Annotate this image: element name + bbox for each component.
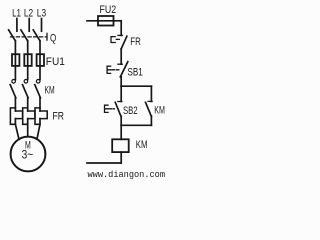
thermal relay FR element pole1 bracket (10, 108, 15, 124)
switch Q pole 1 blade (9, 30, 16, 41)
wire KM aux to bottom branch (150, 116, 152, 125)
wire branch top horizontal (121, 85, 151, 87)
pushbutton SB2 actuator dashes (109, 108, 114, 110)
pushbutton SB1 fixed foot (118, 63, 123, 65)
thermal relay FR element pole1 jog (15, 111, 22, 119)
FR NC contact actuator bracket (111, 37, 115, 43)
svg-text:SB1: SB1 (128, 67, 143, 79)
fuse FU1 pole2 body (24, 54, 31, 66)
thermal relay FR element pole3 jog (40, 111, 47, 119)
thermal relay FR element pole2 jog (28, 111, 35, 119)
motor M circle (11, 137, 46, 172)
wire pole1 switch to fuse (14, 41, 16, 80)
contactor KM main contact pole2 circle (24, 80, 28, 84)
wire SB1 to branch node (120, 77, 122, 86)
svg-text:FR: FR (130, 36, 141, 48)
wire pole2 switch to fuse (27, 41, 29, 80)
pushbutton SB2 fixed foot (118, 101, 122, 103)
contactor KM main contact pole1 circle (12, 80, 16, 84)
svg-text:KM: KM (136, 139, 148, 151)
wire FR contact to SB1 (120, 49, 122, 64)
fuse FU1 pole1 body (12, 54, 19, 66)
svg-text:FU1: FU1 (46, 56, 65, 68)
svg-text:KM: KM (45, 85, 55, 97)
fuse FU2 feed wire (87, 20, 121, 22)
wire left branch down to SB2 (120, 86, 122, 101)
wire bottom rail (87, 162, 121, 164)
wire pole2 FR to motor (27, 119, 29, 137)
switch Q linkage end tick (46, 33, 48, 40)
pushbutton SB1 blade (120, 62, 128, 77)
wire pole3 switch to fuse (39, 41, 41, 80)
switch Q pole 3 blade (33, 30, 40, 41)
pushbutton SB1 actuator dashes (112, 69, 119, 71)
wire pole2 contact to FR (27, 98, 29, 111)
contactor KM main contact pole2 blade (23, 85, 29, 98)
thermal relay FR element pole2 bracket (23, 108, 28, 124)
wire pole1 contact to FR (14, 98, 16, 111)
coil KM body (112, 139, 129, 152)
svg-text:FU2: FU2 (100, 4, 117, 16)
pushbutton SB2 blade (115, 102, 121, 116)
wire FU2 corner down to FR contact (120, 21, 122, 36)
wire pole3 FR to motor (37, 119, 40, 139)
wire SB2 to bottom node (120, 116, 122, 125)
contactor KM aux contact blade (146, 102, 152, 116)
wire L3 drop to switch (41, 19, 43, 32)
FR NC contact blade (121, 36, 127, 49)
svg-text:Q: Q (50, 33, 57, 45)
fuse FU1 pole3 body (37, 54, 44, 66)
svg-text:www.diangon.com: www.diangon.com (88, 170, 166, 180)
contactor KM main contact pole1 blade (10, 85, 16, 98)
svg-text:FR: FR (53, 110, 65, 122)
contactor KM main contact pole3 blade (35, 85, 41, 98)
thermal relay FR element pole3 bracket (35, 108, 40, 124)
wire right branch down to KM contact (150, 86, 152, 101)
svg-text:KM: KM (154, 105, 165, 117)
wire L1 drop to switch (16, 19, 18, 32)
fuse FU2 body (98, 16, 114, 26)
FR NC contact fixed foot (118, 34, 123, 36)
contactor KM aux contact fixed foot (148, 100, 152, 102)
wire node to KM coil (120, 125, 122, 139)
pushbutton SB2 actuator E (105, 105, 109, 112)
FR NC contact actuator dash (116, 38, 119, 40)
svg-text:3~: 3~ (22, 150, 34, 162)
wire L2 drop to switch (28, 19, 30, 32)
switch Q pole 2 blade (21, 30, 28, 41)
wire pole3 contact to FR (39, 98, 41, 111)
svg-text:SB2: SB2 (123, 105, 138, 117)
wire pole1 FR to motor (15, 119, 19, 140)
wire branch bottom horizontal (121, 124, 151, 126)
switch Q linkage dashed line (11, 36, 47, 38)
contactor KM main contact pole3 circle (36, 80, 40, 84)
wire KM coil to bottom rail (120, 152, 122, 163)
pushbutton SB1 actuator E (107, 66, 111, 73)
